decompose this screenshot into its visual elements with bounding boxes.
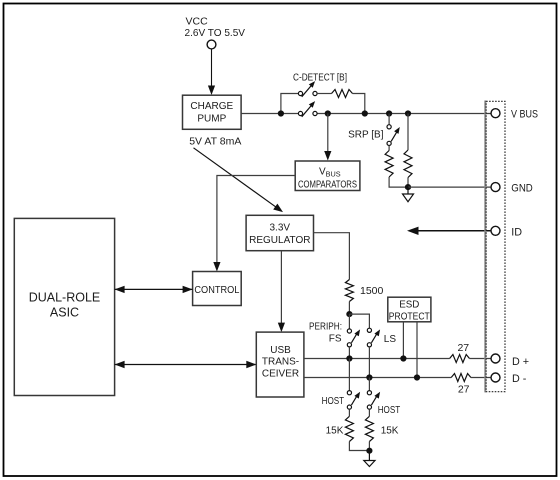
terminal D+ <box>491 354 500 363</box>
svg-text:ESD: ESD <box>399 300 419 311</box>
resistor 27 (D+) <box>450 355 470 363</box>
wire regulator to USB transceiver <box>278 251 285 332</box>
junction dots on VBUS line <box>278 110 284 116</box>
block ESD protect <box>388 297 431 322</box>
svg-text:C-DETECT [B]: C-DETECT [B] <box>293 73 347 84</box>
connector body <box>485 101 505 393</box>
wire LS switch to D- <box>368 347 370 378</box>
svg-text:V BUS: V BUS <box>511 108 538 120</box>
switch HOST (right) <box>367 391 380 410</box>
wire ASIC to USB transceiver (bidirectional) <box>115 361 257 368</box>
wire SRP resistor to GND node <box>389 177 408 187</box>
svg-text:3.3V: 3.3V <box>270 222 291 233</box>
block control <box>193 272 242 306</box>
wire ID (arrow to ASIC side) <box>407 227 491 235</box>
terminal GND <box>491 183 500 192</box>
wire junction to FS switch <box>348 314 350 329</box>
terminal ID <box>491 226 500 235</box>
block 3.3V regulator <box>246 215 313 250</box>
svg-text:PERIPH:: PERIPH: <box>309 322 342 333</box>
svg-text:REGULATOR: REGULATOR <box>249 235 310 246</box>
ground (bottom) <box>364 451 375 467</box>
svg-text:D -: D - <box>512 373 527 385</box>
svg-text:VCC: VCC <box>186 15 209 27</box>
wire switch to 15K (left) <box>348 409 350 416</box>
svg-text:FS: FS <box>329 333 342 344</box>
block dual-role ASIC <box>14 218 114 395</box>
wire charge pump output to VBUS terminal <box>241 113 298 115</box>
switch C-DETECT <box>298 81 317 97</box>
wire junction to LS switch <box>349 314 369 328</box>
wire C-DETECT branch <box>281 94 299 114</box>
svg-text:27: 27 <box>458 384 470 396</box>
wire VBUS to SRP switch <box>388 114 390 125</box>
wire D- <box>304 377 451 379</box>
svg-text:COMPARATORS: COMPARATORS <box>298 179 357 190</box>
svg-text:ASIC: ASIC <box>50 306 79 320</box>
switch FS <box>347 329 360 347</box>
wire 15K resistors to ground <box>349 442 369 451</box>
svg-text:PROTECT: PROTECT <box>389 311 430 322</box>
resistor 15K (right) <box>365 416 373 441</box>
wire VCC to charge pump <box>211 49 213 88</box>
svg-text:15K: 15K <box>326 426 344 437</box>
svg-text:15K: 15K <box>381 426 399 437</box>
wire 1500 to switch junction <box>348 302 350 315</box>
svg-text:D +: D + <box>512 356 529 368</box>
terminal D- <box>491 373 500 382</box>
svg-text:CEIVER: CEIVER <box>262 369 299 380</box>
wire ESD to D- <box>416 322 418 378</box>
svg-text:2.6V TO 5.5V: 2.6V TO 5.5V <box>185 27 246 39</box>
terminal V BUS <box>491 109 500 118</box>
svg-text:LS: LS <box>384 334 397 345</box>
wire ESD to D+ <box>402 322 404 359</box>
wire ASIC to control (bidirectional) <box>115 286 193 293</box>
switch SRP <box>387 125 400 146</box>
wire VBUS to sense resistor <box>407 114 409 151</box>
svg-text:CONTROL: CONTROL <box>194 285 240 296</box>
wire resistor to D- terminal <box>471 377 491 379</box>
switch on VBUS line (C-DETECT bypass) <box>298 101 317 117</box>
svg-text:USB: USB <box>270 345 291 356</box>
resistor 1500 <box>345 280 353 302</box>
wire 5V to 3.3V regulator (diagonal arrow) <box>194 148 284 212</box>
wire resistor to GND node <box>407 178 409 188</box>
switch LS <box>367 328 380 347</box>
junction dots D+/D- <box>346 355 352 361</box>
wire FS switch to D+ <box>348 347 350 359</box>
charge pump block <box>183 95 242 129</box>
svg-text:TRANS-: TRANS- <box>262 357 299 368</box>
wire switch to resistor <box>317 93 331 95</box>
wire resistor back to VBUS line <box>353 94 365 114</box>
svg-text:GND: GND <box>511 183 533 195</box>
svg-text:SRP [B]: SRP [B] <box>348 129 384 140</box>
resistor C-DETECT <box>332 90 353 98</box>
svg-text:DUAL-ROLE: DUAL-ROLE <box>29 290 101 304</box>
junction node GND <box>405 184 411 190</box>
wire VBUS to comparators <box>324 114 331 161</box>
svg-text:ID: ID <box>511 226 522 238</box>
resistor SRP <box>385 151 393 178</box>
terminal VCC <box>207 40 216 49</box>
wire D+ <box>304 358 450 360</box>
wire comparators to control <box>213 176 295 272</box>
wire resistor to D+ terminal <box>470 358 492 360</box>
wire SRP switch to resistor <box>388 146 390 151</box>
wire GND node to GND terminal <box>408 186 491 188</box>
svg-text:PUMP: PUMP <box>197 114 226 125</box>
wire D+ to host switch <box>348 359 350 391</box>
svg-text:5V AT 8mA: 5V AT 8mA <box>189 136 241 148</box>
resistor 27 (D-) <box>451 374 471 382</box>
resistor VBUS sense <box>404 150 412 178</box>
svg-text:1500: 1500 <box>360 285 384 297</box>
block VBUS comparators <box>295 161 360 191</box>
svg-text:HOST: HOST <box>322 396 345 407</box>
wire D- to host switch <box>368 378 370 391</box>
svg-text:CHARGE: CHARGE <box>190 101 233 112</box>
wire regulator to 1500 resistor <box>314 233 350 280</box>
block USB transceiver <box>256 332 304 397</box>
junction node pull-up <box>346 311 352 317</box>
resistor 15K (left) <box>345 416 353 441</box>
svg-text:HOST: HOST <box>378 405 401 416</box>
ground (top) <box>403 187 414 202</box>
junction node ground <box>366 448 372 454</box>
wire switch to 15K (right) <box>368 409 370 416</box>
svg-text:27: 27 <box>457 342 469 354</box>
switch HOST (left) <box>347 391 360 410</box>
